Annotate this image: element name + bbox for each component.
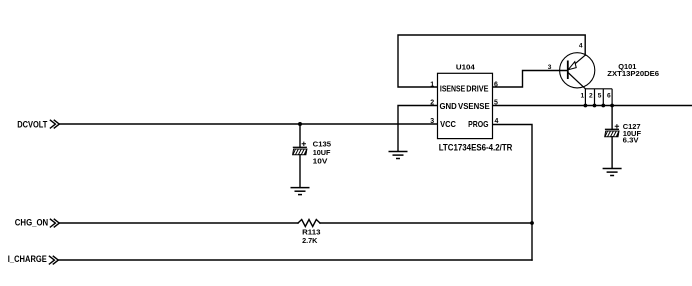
svg-text:ISENSE: ISENSE xyxy=(440,84,466,94)
transistor pin stub 6 xyxy=(611,89,613,106)
svg-text:LTC1734ES6-4.2/TR: LTC1734ES6-4.2/TR xyxy=(439,143,513,153)
svg-text:GND: GND xyxy=(440,101,457,111)
transistor pin stub 2 xyxy=(594,89,596,106)
capacitor C127 plus sign xyxy=(615,124,619,128)
wire C127 branch lower to ground xyxy=(611,137,613,169)
svg-text:ZXT13P20DE6: ZXT13P20DE6 xyxy=(607,69,659,78)
transistor base bar xyxy=(567,61,569,80)
transistor collector pins bar xyxy=(585,88,612,90)
svg-text:DRIVE: DRIVE xyxy=(466,84,489,94)
svg-text:3: 3 xyxy=(430,118,434,125)
svg-text:2.7K: 2.7K xyxy=(302,236,318,245)
transistor circle xyxy=(560,53,595,88)
svg-text:2: 2 xyxy=(430,99,434,106)
svg-text:6: 6 xyxy=(607,92,611,99)
ground below C135 xyxy=(291,188,310,195)
wire PROG pin4 down to I_CHARGE xyxy=(493,125,533,261)
node CHG_ON port chevron xyxy=(50,219,59,227)
svg-text:VSENSE: VSENSE xyxy=(458,101,490,111)
svg-text:6: 6 xyxy=(494,81,498,88)
svg-text:VCC: VCC xyxy=(440,119,456,129)
junction dot Q101 pin6 on rail xyxy=(610,104,614,108)
transistor pin stub 1 xyxy=(584,89,586,106)
svg-text:U104: U104 xyxy=(456,62,476,71)
capacitor C135 plus sign xyxy=(302,142,306,146)
svg-text:5: 5 xyxy=(598,92,602,99)
wire C127 branch upper xyxy=(611,106,613,130)
capacitor C127 symbol xyxy=(605,124,619,137)
wire VSENSE pin5 rail xyxy=(493,105,692,107)
svg-text:6.3V: 6.3V xyxy=(623,136,640,145)
svg-text:1: 1 xyxy=(581,92,585,99)
wire GND pin2 to ground xyxy=(398,106,438,152)
svg-text:4: 4 xyxy=(579,43,583,50)
svg-text:PROG: PROG xyxy=(468,119,488,129)
svg-text:I_CHARGE: I_CHARGE xyxy=(8,254,47,264)
ground below C127 xyxy=(603,169,622,176)
node I_CHARGE port chevron xyxy=(49,256,58,264)
svg-text:2: 2 xyxy=(589,92,593,99)
wire I_CHARGE net xyxy=(58,259,532,261)
wire ISENSE pin1 loop to Q101 emitter xyxy=(398,35,585,87)
svg-text:10UF: 10UF xyxy=(313,148,331,157)
node DCVOLT port chevron xyxy=(50,120,59,128)
wire R113 to PROG junction xyxy=(320,222,532,224)
capacitor C135 symbol xyxy=(293,142,307,155)
transistor pin stub 5 xyxy=(602,89,604,106)
ground below U104 pin2 xyxy=(389,152,408,159)
svg-text:4: 4 xyxy=(495,118,499,125)
junction dot Q101 pin1 on rail xyxy=(584,104,588,108)
IC U104 body xyxy=(438,73,493,138)
svg-text:1: 1 xyxy=(430,81,434,88)
resistor R113 zigzag xyxy=(298,220,320,227)
svg-text:3: 3 xyxy=(548,64,552,71)
svg-text:5: 5 xyxy=(494,99,498,106)
transistor collector diagonal xyxy=(568,73,585,89)
junction dot DCVOLT C135 xyxy=(298,122,302,126)
transistor emitter diagonal xyxy=(569,55,586,69)
wire C135 branch lower to ground xyxy=(299,155,301,188)
wire DRIVE pin6 to Q101 base xyxy=(493,71,568,88)
wire CHG_ON to R113 xyxy=(59,222,298,224)
junction dot Q101 pin5 on rail xyxy=(601,104,605,108)
svg-text:CHG_ON: CHG_ON xyxy=(15,217,48,227)
wire DCVOLT net to VCC pin3 xyxy=(59,123,438,125)
junction dot CHG_ON PROG xyxy=(530,221,534,225)
transistor Q2 Q101 symbol xyxy=(560,53,612,106)
svg-text:10V: 10V xyxy=(313,157,329,166)
junction dot Q101 pin2 on rail xyxy=(593,104,597,108)
transistor emitter arrowhead xyxy=(568,62,576,70)
svg-text:DCVOLT: DCVOLT xyxy=(17,120,48,130)
wire C135 branch upper xyxy=(299,124,301,147)
